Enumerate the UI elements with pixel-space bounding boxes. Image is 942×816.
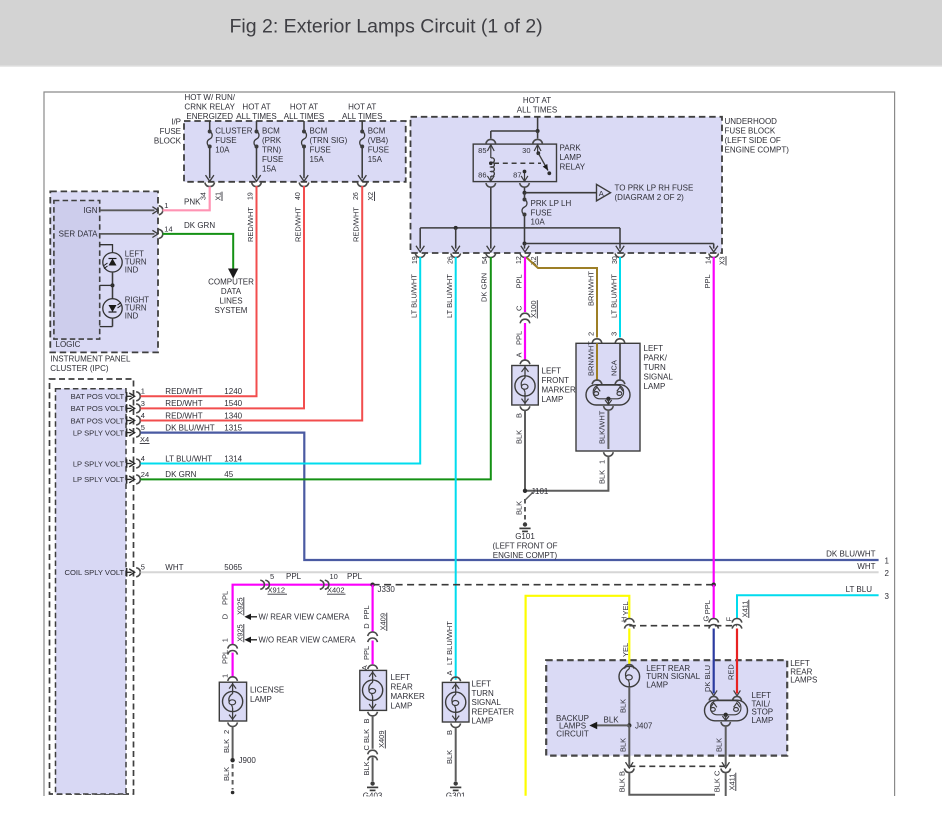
svg-text:COIL SPLY VOLT: COIL SPLY VOLT	[65, 568, 125, 577]
bulb left rear turn signal lamp	[619, 666, 640, 687]
svg-text:RED/WHT: RED/WHT	[352, 207, 361, 242]
svg-text:W/ REAR VIEW CAMERA: W/ REAR VIEW CAMERA	[259, 613, 351, 622]
bulb left rear marker	[372, 670, 374, 682]
svg-text:X409: X409	[379, 613, 388, 631]
svg-text:DK GRN: DK GRN	[480, 273, 489, 302]
svg-text:BAT POS VOLT: BAT POS VOLT	[71, 404, 125, 413]
svg-text:TO PRK LP RH FUSE: TO PRK LP RH FUSE	[615, 184, 694, 193]
svg-text:DATA: DATA	[221, 287, 242, 296]
svg-text:LINES: LINES	[219, 297, 242, 306]
wire BLK turn signal ground lead	[628, 725, 630, 766]
svg-text:A: A	[599, 189, 604, 198]
svg-text:3: 3	[141, 399, 145, 408]
svg-text:C: C	[362, 745, 371, 751]
fuse CLUSTER FUSE 10A	[209, 121, 211, 132]
wire DK BLU tail lamp feed	[713, 629, 715, 694]
wire RED/WHT 1240	[141, 186, 257, 396]
svg-text:BAT POS VOLT: BAT POS VOLT	[71, 416, 125, 425]
svg-text:15A: 15A	[310, 155, 325, 164]
svg-text:TURN: TURN	[472, 689, 494, 698]
I/P fuse block box	[184, 121, 406, 182]
svg-text:LOGIC: LOGIC	[56, 340, 81, 349]
svg-text:LAMP: LAMP	[646, 680, 668, 689]
fuse BCM (TRN SIG) FUSE 15A	[303, 121, 305, 132]
svg-text:HOT W/ RUN/: HOT W/ RUN/	[184, 93, 235, 102]
svg-text:G101: G101	[515, 532, 535, 541]
wire PPL pin 12 to marker lamp	[524, 257, 526, 312]
svg-text:D: D	[221, 613, 230, 619]
svg-text:NCA: NCA	[610, 360, 619, 376]
svg-text:1: 1	[598, 460, 607, 464]
relay coil	[491, 158, 495, 177]
license lamp box	[219, 682, 246, 721]
svg-text:1340: 1340	[224, 411, 242, 420]
svg-text:26: 26	[353, 192, 360, 200]
svg-text:TURN: TURN	[644, 363, 666, 372]
bulb front marker	[524, 366, 526, 379]
wire BLK dashed below J900	[232, 764, 234, 790]
connector pin B repeater	[451, 723, 461, 727]
svg-text:PPL: PPL	[221, 650, 230, 664]
svg-text:PPL: PPL	[703, 600, 712, 614]
relay pin 85	[487, 145, 494, 151]
svg-text:LT BLU/WHT: LT BLU/WHT	[410, 274, 419, 318]
underhood fuse block box	[411, 117, 723, 253]
logic inner box	[54, 201, 100, 340]
svg-text:5: 5	[141, 423, 145, 432]
svg-text:LEFT: LEFT	[644, 344, 664, 353]
wire BLK repeater to G301	[455, 728, 457, 782]
svg-text:X100: X100	[529, 300, 538, 318]
node J101	[523, 489, 527, 493]
svg-text:1: 1	[221, 674, 230, 678]
svg-text:LP SPLY VOLT: LP SPLY VOLT	[73, 475, 125, 484]
svg-text:ALL TIMES: ALL TIMES	[236, 112, 276, 121]
svg-text:(LEFT SIDE OF: (LEFT SIDE OF	[725, 136, 781, 145]
svg-text:19: 19	[412, 256, 419, 264]
bulb license lamp	[232, 682, 234, 694]
svg-text:(VB4): (VB4)	[368, 136, 389, 145]
svg-text:X4: X4	[140, 435, 149, 444]
svg-text:HOT AT: HOT AT	[348, 103, 376, 112]
svg-text:X402: X402	[327, 586, 345, 595]
relay pin 85 connector arc	[486, 139, 496, 143]
wire BLK to backup lamps circuit	[596, 724, 629, 726]
svg-text:PPL: PPL	[515, 331, 524, 345]
svg-text:LAMP: LAMP	[391, 702, 413, 711]
title header band	[0, 0, 942, 66]
svg-text:X912: X912	[268, 586, 286, 595]
wire LED return	[112, 318, 114, 327]
LED right turn indicator	[103, 299, 122, 318]
svg-text:RED/WHT: RED/WHT	[165, 411, 202, 420]
wire BLK marker to G403	[372, 716, 374, 781]
svg-text:DK BLU/WHT: DK BLU/WHT	[826, 550, 875, 559]
svg-text:1: 1	[885, 557, 890, 566]
svg-text:5: 5	[141, 563, 145, 572]
wire PPL to G connector	[713, 585, 715, 619]
svg-text:FUSE BLOCK: FUSE BLOCK	[725, 127, 776, 136]
svg-text:15A: 15A	[368, 155, 383, 164]
wire LT BLU/WHT pin 26 to repeater lamp	[455, 257, 457, 680]
svg-text:Fig 2: Exterior Lamps Circuit: Fig 2: Exterior Lamps Circuit (1 of 2)	[230, 16, 543, 38]
svg-text:(TRN SIG): (TRN SIG)	[310, 136, 348, 145]
svg-text:PPL: PPL	[221, 591, 230, 605]
svg-text:1: 1	[221, 638, 230, 642]
wire hot feed into relay	[537, 117, 539, 131]
wire fuse to pins 12 and 14	[524, 215, 526, 244]
svg-text:26: 26	[448, 256, 455, 264]
left rear lamps box	[546, 660, 787, 755]
svg-text:BCM: BCM	[368, 127, 386, 136]
svg-text:LAMPS: LAMPS	[790, 676, 817, 685]
wire LT BLU bus line 3	[737, 595, 879, 618]
wire BRN/WHT inside lamp box	[596, 343, 598, 379]
svg-text:40: 40	[295, 192, 302, 200]
wire relay 86 to pin 54	[490, 188, 492, 249]
svg-text:PPL: PPL	[362, 646, 371, 660]
svg-text:MARKER: MARKER	[391, 692, 425, 701]
svg-text:X925: X925	[236, 624, 245, 642]
svg-text:SER DATA: SER DATA	[59, 230, 98, 239]
svg-text:LP SPLY VOLT: LP SPLY VOLT	[73, 428, 125, 437]
svg-text:FUSE: FUSE	[160, 127, 181, 136]
left turn signal repeater lamp box	[442, 682, 469, 722]
svg-text:FUSE: FUSE	[310, 146, 331, 155]
svg-text:LT BLU/WHT: LT BLU/WHT	[445, 274, 454, 318]
svg-text:15A: 15A	[262, 165, 277, 174]
connector pin B marker	[368, 712, 378, 716]
svg-text:PNK: PNK	[184, 198, 201, 207]
svg-text:IND: IND	[125, 266, 139, 275]
relay linkage dashed	[494, 162, 541, 164]
wire RED tail lamp feed	[736, 629, 738, 694]
svg-text:X411: X411	[741, 601, 750, 618]
connector X402 pin 10	[320, 580, 324, 589]
svg-text:14: 14	[164, 225, 172, 234]
diagram frame	[44, 92, 895, 796]
svg-text:BCM: BCM	[310, 127, 328, 136]
dual filament bulb park/turn	[586, 385, 630, 405]
wire BLK dashed to G101	[524, 499, 526, 521]
svg-text:BLK: BLK	[362, 729, 371, 743]
svg-text:REAR: REAR	[391, 683, 413, 692]
svg-text:A: A	[445, 670, 454, 675]
connector pin 2 license	[228, 722, 238, 726]
wire to A triangle	[525, 192, 597, 194]
wire RED/WHT 1540	[141, 186, 305, 408]
node J407	[627, 723, 631, 727]
relay pin 30 connector arc	[533, 139, 543, 143]
svg-text:19: 19	[248, 192, 255, 200]
svg-text:LEFT: LEFT	[472, 680, 492, 689]
svg-text:BRN/WHT: BRN/WHT	[587, 271, 596, 306]
connector pin A repeater	[451, 677, 461, 681]
wire BLK marker to J101	[524, 410, 526, 491]
svg-text:BCM: BCM	[262, 127, 280, 136]
svg-text:DK GRN: DK GRN	[165, 470, 196, 479]
svg-text:CLUSTER: CLUSTER	[215, 127, 253, 136]
svg-text:ENERGIZED: ENERGIZED	[186, 112, 233, 121]
svg-text:30: 30	[522, 146, 530, 155]
connector X912 pin 5	[260, 580, 264, 589]
svg-text:LICENSE: LICENSE	[250, 686, 284, 695]
svg-text:BRN/WHT: BRN/WHT	[587, 341, 596, 376]
svg-text:BLK/WHT: BLK/WHT	[598, 410, 607, 444]
svg-text:ALL TIMES: ALL TIMES	[517, 105, 557, 114]
svg-text:SYSTEM: SYSTEM	[215, 306, 248, 315]
svg-text:LAMP: LAMP	[644, 382, 666, 391]
wire RED/WHT 1340	[141, 186, 363, 421]
svg-text:RED/WHT: RED/WHT	[294, 207, 303, 242]
svg-text:ENGINE COMPT): ENGINE COMPT)	[493, 551, 558, 560]
svg-text:A: A	[360, 665, 369, 670]
wire YEL turn signal	[526, 596, 630, 796]
svg-text:1315: 1315	[224, 423, 242, 432]
svg-text:BLK: BLK	[619, 738, 628, 752]
wire LT BLU/WHT pin 30 to park/turn lamp pin 3	[619, 257, 621, 338]
svg-text:14: 14	[706, 256, 713, 264]
LED left turn indicator	[103, 253, 122, 272]
svg-text:LT BLU: LT BLU	[846, 585, 873, 594]
svg-text:YEL: YEL	[621, 643, 630, 657]
wire relay 87 junction	[524, 188, 526, 193]
svg-text:IND: IND	[125, 312, 139, 321]
svg-text:C: C	[515, 305, 524, 311]
svg-text:1240: 1240	[224, 387, 242, 396]
relay pin 87 arc	[520, 183, 530, 187]
svg-text:D: D	[362, 623, 371, 629]
svg-text:1: 1	[141, 387, 145, 396]
arrow to computer data lines	[228, 269, 238, 279]
svg-text:4: 4	[141, 454, 145, 463]
svg-text:BLK: BLK	[515, 430, 524, 444]
svg-text:5: 5	[270, 572, 274, 581]
svg-text:LT BLU/WHT: LT BLU/WHT	[165, 454, 212, 463]
svg-text:(DIAGRAM 2 OF 2): (DIAGRAM 2 OF 2)	[615, 193, 685, 202]
svg-text:BLK: BLK	[222, 739, 231, 753]
svg-text:87: 87	[513, 170, 521, 179]
tie line pins 19 26 30	[420, 227, 620, 229]
wire WHT 5065 bus	[141, 571, 879, 573]
triangle A to PRK LP RH fuse	[597, 184, 611, 201]
svg-text:10A: 10A	[531, 218, 546, 227]
ground G301	[454, 781, 458, 785]
svg-text:COMPUTER: COMPUTER	[208, 278, 254, 287]
svg-text:CLUSTER (IPC): CLUSTER (IPC)	[50, 364, 109, 373]
svg-text:2: 2	[885, 569, 890, 578]
svg-text:RED/WHT: RED/WHT	[165, 399, 202, 408]
connector G PPL to DK BLU	[709, 619, 719, 623]
svg-text:X409: X409	[377, 730, 386, 748]
left park/turn signal lamp box	[576, 343, 640, 451]
svg-text:PPL: PPL	[347, 572, 363, 581]
svg-text:BLK: BLK	[604, 715, 620, 724]
svg-text:LT BLU/WHT: LT BLU/WHT	[445, 621, 454, 665]
svg-text:BLK: BLK	[715, 738, 724, 752]
wire BLK C bottom	[725, 773, 727, 797]
svg-text:FUSE: FUSE	[262, 155, 283, 164]
wire PPL coil supply branch	[233, 585, 373, 677]
svg-text:LAMP: LAMP	[560, 153, 582, 162]
wire LT BLU/WHT 1314	[141, 257, 421, 464]
connector X411 BLK B	[626, 762, 634, 768]
svg-text:TRN): TRN)	[262, 146, 281, 155]
svg-text:RED/WHT: RED/WHT	[165, 387, 202, 396]
svg-text:X411: X411	[728, 774, 737, 791]
svg-text:RELAY: RELAY	[560, 163, 586, 172]
svg-text:30: 30	[612, 256, 619, 264]
svg-text:LEFT: LEFT	[542, 367, 562, 376]
svg-text:HOT AT: HOT AT	[523, 96, 551, 105]
svg-text:PPL: PPL	[703, 274, 712, 288]
svg-text:10A: 10A	[215, 146, 230, 155]
svg-text:2: 2	[222, 730, 231, 734]
wire between LEDs	[112, 272, 114, 299]
connector X411 BLK C	[722, 762, 730, 768]
svg-text:IGN: IGN	[83, 206, 97, 215]
svg-text:REPEATER: REPEATER	[472, 707, 515, 716]
svg-text:FUSE: FUSE	[368, 146, 389, 155]
svg-text:BLK: BLK	[515, 501, 524, 515]
svg-text:YEL: YEL	[621, 601, 630, 615]
dashed wire J330 to PPL main	[373, 584, 714, 586]
svg-text:PRK LP LH: PRK LP LH	[531, 199, 572, 208]
svg-text:5065: 5065	[224, 563, 242, 572]
svg-text:(LEFT FRONT OF: (LEFT FRONT OF	[492, 542, 557, 551]
svg-text:LAMP: LAMP	[472, 717, 494, 726]
svg-text:85: 85	[478, 146, 486, 155]
svg-text:LEFT: LEFT	[391, 673, 411, 682]
svg-text:BLK: BLK	[619, 699, 628, 713]
svg-text:SIGNAL: SIGNAL	[644, 373, 674, 382]
svg-text:B: B	[515, 413, 524, 418]
fuse BCM (VB4) FUSE 15A	[361, 121, 363, 132]
svg-text:WHT: WHT	[165, 563, 183, 572]
left front marker lamp box	[512, 366, 539, 406]
connector pin B marker lamp	[520, 406, 530, 410]
svg-text:54: 54	[482, 256, 489, 264]
svg-text:B: B	[445, 730, 454, 735]
svg-text:86: 86	[478, 171, 486, 180]
svg-text:B: B	[362, 718, 371, 723]
wire BLK/WHT to pin 1	[605, 400, 612, 404]
svg-text:A: A	[515, 352, 524, 357]
ground G403	[370, 781, 374, 785]
svg-text:1: 1	[164, 201, 168, 210]
svg-text:1314: 1314	[224, 454, 242, 463]
svg-text:SIGNAL: SIGNAL	[472, 698, 502, 707]
svg-text:BLK: BLK	[222, 767, 231, 781]
svg-text:34: 34	[201, 192, 208, 200]
svg-text:LT BLU/WHT: LT BLU/WHT	[610, 274, 619, 318]
svg-text:3: 3	[885, 592, 890, 601]
svg-text:FUSE: FUSE	[215, 136, 236, 145]
svg-text:FRONT: FRONT	[542, 376, 570, 385]
LED circuit wires	[100, 245, 113, 253]
svg-text:PARK: PARK	[560, 144, 582, 153]
svg-text:PPL: PPL	[362, 605, 371, 619]
ipc connector outer box	[50, 379, 134, 794]
wire BLK tail stop ground lead	[725, 715, 727, 721]
svg-text:DK GRN: DK GRN	[184, 221, 215, 230]
svg-text:RED/WHT: RED/WHT	[246, 207, 255, 242]
fuse PRK LP LH FUSE 10A	[524, 193, 526, 200]
svg-text:J330: J330	[378, 585, 396, 594]
left rear marker lamp box	[360, 670, 387, 710]
relay switch blade	[536, 151, 540, 155]
svg-text:12: 12	[516, 256, 523, 264]
svg-text:ENGINE COMPT): ENGINE COMPT)	[725, 146, 790, 155]
bottom clip	[0, 797, 942, 816]
bulb repeater	[455, 682, 457, 694]
svg-text:3: 3	[610, 332, 619, 336]
wire NCA inside lamp box	[619, 343, 621, 379]
svg-text:WHT: WHT	[857, 562, 875, 571]
svg-text:PPL: PPL	[515, 274, 524, 288]
svg-text:BLK: BLK	[362, 761, 371, 775]
svg-text:INSTRUMENT PANEL: INSTRUMENT PANEL	[50, 355, 131, 364]
fuse BCM (PRK TRN) FUSE 15A	[256, 121, 258, 132]
svg-text:BLOCK: BLOCK	[154, 137, 182, 146]
svg-text:BLK C: BLK C	[713, 770, 722, 792]
wire PPL pin 14 down right side	[713, 257, 715, 585]
svg-text:LAMP: LAMP	[752, 716, 774, 725]
svg-text:10: 10	[330, 572, 338, 581]
connector X411 bottom dashed	[629, 765, 725, 767]
wire DK BLU/WHT 1315 bus	[141, 433, 879, 560]
wire BLK B bottom	[629, 773, 715, 795]
ipc connector inner box	[56, 389, 127, 794]
relay box PARK LAMP RELAY	[473, 144, 556, 182]
svg-text:J900: J900	[239, 756, 257, 765]
svg-text:BAT POS VOLT: BAT POS VOLT	[71, 392, 125, 401]
svg-text:BLK B: BLK B	[618, 771, 627, 792]
svg-text:HOT AT: HOT AT	[290, 103, 318, 112]
svg-text:BLK: BLK	[445, 750, 454, 764]
svg-text:UNDERHOOD: UNDERHOOD	[725, 117, 778, 126]
instrument panel cluster box	[50, 191, 158, 352]
wire PPL left rear marker feed	[372, 585, 374, 632]
relay pin 86 arc	[486, 183, 496, 187]
svg-text:X925: X925	[236, 597, 245, 615]
svg-text:PARK/: PARK/	[644, 354, 668, 363]
wire YEL into lamp	[628, 629, 630, 665]
svg-text:LAMP: LAMP	[250, 695, 272, 704]
svg-text:ALL TIMES: ALL TIMES	[342, 112, 382, 121]
ground G101	[523, 522, 527, 526]
svg-text:45: 45	[224, 470, 233, 479]
svg-text:LP SPLY VOLT: LP SPLY VOLT	[73, 459, 125, 468]
svg-text:MARKER: MARKER	[542, 386, 576, 395]
wire BRN/WHT to park/turn lamp pin 2	[527, 258, 598, 338]
svg-text:RED: RED	[727, 664, 736, 680]
svg-text:J101: J101	[531, 487, 549, 496]
wire BLK license to J900	[232, 727, 234, 761]
svg-text:(PRK: (PRK	[262, 136, 282, 145]
svg-text:J407: J407	[635, 721, 653, 730]
relay pin 30	[534, 145, 541, 151]
svg-text:2: 2	[587, 332, 596, 336]
svg-text:BLK: BLK	[598, 470, 607, 484]
wire BLK turn signal to J407	[628, 687, 630, 726]
node J900	[230, 758, 234, 762]
wire DK GRN 45	[141, 257, 491, 479]
svg-text:W/O REAR VIEW CAMERA: W/O REAR VIEW CAMERA	[259, 636, 357, 645]
svg-text:PPL: PPL	[286, 572, 302, 581]
svg-text:24: 24	[141, 470, 149, 479]
svg-text:DK BLU: DK BLU	[703, 665, 712, 692]
